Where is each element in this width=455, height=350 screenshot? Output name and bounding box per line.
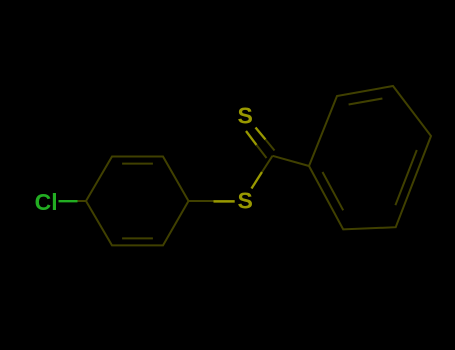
bond S to central C (sulfur half) [252, 172, 263, 189]
right ring double bond inner line right edge [395, 150, 416, 205]
thiocarbonyl C=S double bond line 1 (carbon half) [257, 145, 267, 158]
svg-text:S: S [238, 103, 253, 129]
svg-text:Cl: Cl [35, 189, 58, 215]
thiocarbonyl C=S double bond line 1 (sulfur half) [246, 131, 257, 145]
right ring double bond inner line left-bottom edge [323, 172, 344, 210]
benzene ring left (4-chlorophenyl ring) [86, 157, 189, 246]
benzene ring right (phenyl ring) [309, 86, 431, 229]
left ring double bond inner line bottom edge [122, 237, 153, 239]
thiocarbonyl C=S double bond line 2 (sulfur half) [256, 128, 266, 140]
bond Cl to ring (green half) [59, 200, 78, 202]
bond central C to right ring [273, 156, 310, 166]
bond ring to thioether S (carbon half) [189, 200, 214, 202]
svg-text:S: S [238, 188, 253, 214]
bond S to central C (carbon half) [262, 156, 273, 172]
bond Cl to ring (carbon half) [78, 200, 87, 202]
left ring double bond inner line top edge [122, 163, 153, 165]
bond ring to thioether S (sulfur half) [214, 200, 235, 203]
thiocarbonyl C=S double bond line 2 (carbon half) [266, 140, 275, 151]
right ring double bond inner line top edge [349, 99, 383, 105]
